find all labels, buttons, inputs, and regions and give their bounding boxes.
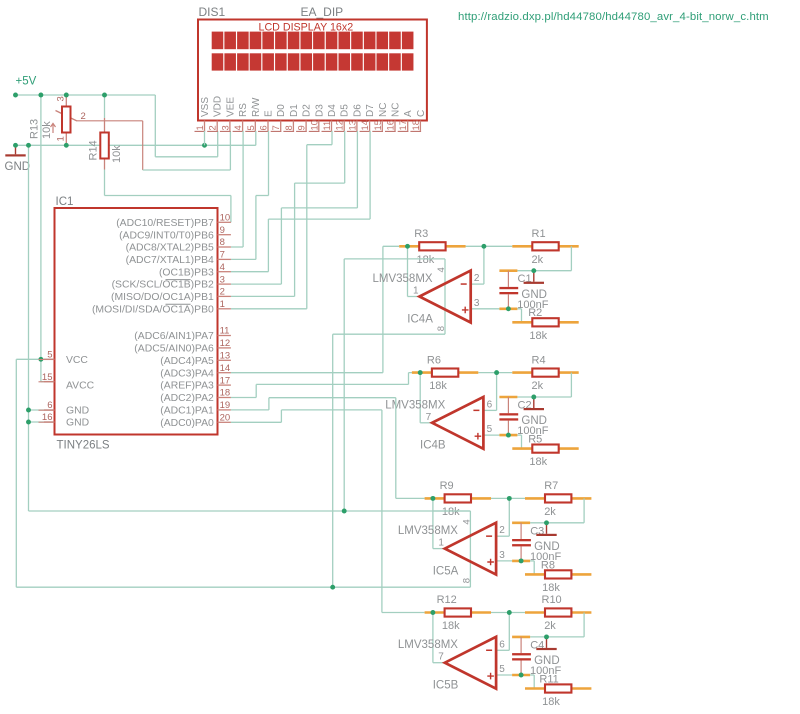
svg-text:18k: 18k: [442, 506, 460, 518]
wire IC4A non-inverting input row: [471, 308, 500, 310]
svg-text:(ADC9/INT0/T0)PB6: (ADC9/INT0/T0)PB6: [119, 230, 214, 241]
wire IC5A inverting input: [496, 535, 509, 537]
svg-text:16: 16: [42, 412, 53, 423]
svg-text:7: 7: [220, 250, 225, 261]
IC1 overline OC1A on PB0: [166, 303, 191, 305]
svg-text:18: 18: [410, 120, 421, 130]
svg-text:IC4A: IC4A: [407, 313, 433, 325]
svg-text:7: 7: [426, 412, 432, 423]
svg-text:11: 11: [220, 326, 230, 337]
svg-text:GND: GND: [66, 417, 89, 428]
svg-text:10: 10: [220, 213, 231, 224]
svg-text:R3: R3: [414, 228, 428, 240]
svg-text:6: 6: [499, 639, 505, 650]
svg-text:GND: GND: [5, 161, 31, 173]
wire LCD pin14 D7 to IC1 pin4: [369, 131, 371, 219]
svg-text:(MISO/DO/OC1A)PB1: (MISO/DO/OC1A)PB1: [111, 292, 214, 303]
wire R14 to IC1 RESET pin10: [105, 195, 231, 197]
wire R4 to C2 top: [570, 373, 572, 397]
wire IC5A output feedback: [432, 498, 434, 548]
svg-text:GND: GND: [521, 415, 547, 427]
svg-text:RS: RS: [238, 103, 249, 117]
svg-text:13: 13: [220, 351, 231, 362]
wire +5V to VCC/AVCC drop: [40, 95, 42, 382]
resistor R6 18k: [412, 371, 432, 374]
svg-text:NC: NC: [378, 103, 389, 117]
svg-text:R5: R5: [528, 434, 542, 446]
wire IC4A inverting input: [471, 283, 484, 285]
wire GND rail: [16, 144, 256, 146]
wire LCD pin4 RS to IC1 pin8: [242, 131, 244, 247]
junction dots +5V rail: [13, 93, 18, 98]
wire IC5A non-inverting input row: [496, 560, 512, 562]
svg-text:14: 14: [359, 120, 370, 130]
svg-text:IC5A: IC5A: [433, 566, 459, 578]
svg-text:NC: NC: [391, 103, 402, 117]
svg-text:LMV358MX: LMV358MX: [398, 639, 458, 651]
svg-text:(ADC3)PA4: (ADC3)PA4: [160, 368, 214, 379]
wire AVCC stub: [41, 381, 55, 383]
svg-text:(ADC6/AIN1)PA7: (ADC6/AIN1)PA7: [134, 331, 214, 342]
svg-text:(SCK/SCL/OC1B)PB2: (SCK/SCL/OC1B)PB2: [112, 280, 214, 291]
svg-text:R4: R4: [532, 354, 546, 366]
svg-text:8: 8: [220, 237, 225, 248]
wire GND pin16 stub: [29, 421, 55, 423]
wire LCD pin11 D4 to IC1 pin1: [331, 131, 333, 145]
svg-text:2: 2: [220, 287, 225, 298]
resistor R12 18k: [425, 611, 445, 614]
svg-text:R13: R13: [29, 119, 41, 139]
svg-text:D5: D5: [340, 104, 351, 117]
resistor R1 2k: [512, 245, 532, 248]
svg-text:(ADC10/RESET)PB7: (ADC10/RESET)PB7: [116, 218, 214, 229]
svg-text:10: 10: [308, 120, 319, 130]
svg-text:1: 1: [194, 125, 205, 130]
wire VCC stub: [41, 358, 55, 360]
svg-text:R8: R8: [541, 559, 555, 571]
svg-text:2k: 2k: [532, 380, 544, 392]
svg-text:18k: 18k: [542, 696, 560, 708]
IC1 overline OC1B on PB2: [166, 279, 191, 281]
svg-text:R/W: R/W: [251, 97, 262, 117]
wire R13 wiper to LCD VEE pin3: [77, 120, 143, 122]
svg-text:DIS1: DIS1: [199, 5, 226, 19]
IC1 left-side pins: [44, 358, 55, 360]
svg-text:(ADC1)PA1: (ADC1)PA1: [160, 406, 214, 417]
svg-text:8: 8: [436, 326, 447, 331]
svg-text:7: 7: [438, 652, 444, 663]
wire GND drop to IC1 GND pins and GND bus: [28, 145, 30, 511]
wire IC5A power pins 4 and 8: [433, 510, 471, 512]
resistor R7 2k: [525, 497, 545, 500]
svg-text:9: 9: [220, 225, 225, 236]
svg-text:+5V: +5V: [16, 76, 37, 88]
svg-text:1: 1: [438, 538, 444, 549]
svg-text:12: 12: [334, 120, 345, 130]
svg-text:R14: R14: [88, 140, 100, 160]
svg-text:12: 12: [220, 338, 231, 349]
svg-text:VCC: VCC: [66, 355, 88, 366]
IC5B input polarity marks and pin numbers: [486, 650, 492, 652]
wire R10 to C4 top: [583, 613, 585, 637]
trimmer R13 10k: [65, 95, 67, 107]
svg-text:18k: 18k: [529, 456, 547, 468]
resistor R3 18k: [399, 245, 419, 248]
resistor R8 18k: [525, 573, 545, 576]
svg-text:8: 8: [283, 125, 294, 130]
wire GND bus horizontal: [29, 510, 471, 512]
wire LCD pin1 VSS to GND rail: [204, 131, 206, 145]
svg-text:(ADC2)PA2: (ADC2)PA2: [160, 393, 214, 404]
svg-text:LMV358MX: LMV358MX: [398, 525, 458, 537]
IC U1 IC1 box: [55, 208, 218, 435]
svg-text:5: 5: [499, 664, 505, 675]
IC5A input polarity marks and pin numbers: [486, 535, 492, 537]
wire +5V bus horizontal: [16, 586, 470, 588]
svg-text:C: C: [416, 110, 427, 117]
svg-text:1: 1: [220, 299, 225, 310]
IC1 right-side pins: [218, 221, 231, 223]
wire IC5A main node: [491, 497, 525, 499]
resistor R14 10k: [104, 95, 106, 118]
svg-text:3: 3: [220, 274, 225, 285]
svg-text:3: 3: [499, 550, 505, 561]
display DIS1 LCD DISPLAY 16x2 box: [198, 20, 427, 121]
svg-text:IC1: IC1: [56, 196, 74, 208]
resistor R11 18k: [525, 687, 545, 690]
svg-text:(ADC7/XTAL1)PB4: (ADC7/XTAL1)PB4: [126, 255, 214, 266]
svg-text:D0: D0: [276, 104, 287, 117]
svg-text:D7: D7: [365, 104, 376, 117]
svg-text:D2: D2: [302, 104, 313, 117]
svg-text:2k: 2k: [544, 620, 556, 632]
junction dot GND bus to IC4A pin4 riser: [343, 259, 345, 511]
wire +5V drop from VCC to +5V bus: [15, 359, 17, 587]
wire IC4B output feedback: [419, 373, 421, 423]
svg-text:VDD: VDD: [213, 96, 224, 117]
svg-text:7: 7: [270, 125, 281, 130]
svg-text:6: 6: [258, 125, 269, 130]
svg-text:18k: 18k: [429, 380, 447, 392]
svg-text:13: 13: [346, 120, 357, 130]
svg-text:GND: GND: [66, 405, 89, 416]
wire IC5B inverting input: [496, 649, 509, 651]
resistor R4 2k: [512, 371, 532, 374]
svg-text:GND: GND: [521, 289, 547, 301]
svg-text:1: 1: [56, 136, 67, 141]
wire LCD pin5 R/W to GND rail: [255, 131, 257, 145]
capacitor C2 100nF: [499, 396, 517, 399]
svg-text:R11: R11: [539, 673, 558, 685]
svg-text:15: 15: [42, 372, 53, 383]
svg-text:(AREF)PA3: (AREF)PA3: [160, 381, 214, 392]
svg-text:20: 20: [220, 413, 231, 424]
wire +5V rail: [16, 94, 156, 96]
svg-text:IC4B: IC4B: [420, 440, 446, 452]
svg-text:R12: R12: [437, 594, 457, 606]
svg-text:4: 4: [436, 267, 447, 272]
svg-text:10k: 10k: [41, 121, 53, 139]
svg-text:16: 16: [385, 120, 396, 130]
svg-text:14: 14: [220, 363, 231, 374]
capacitor C1 100nF: [499, 269, 517, 272]
svg-text:VEE: VEE: [225, 97, 236, 117]
wire LCD pin12 D5 to IC1 pin2: [344, 131, 346, 183]
svg-text:R1: R1: [532, 228, 546, 240]
svg-text:A: A: [403, 110, 414, 117]
svg-text:2: 2: [474, 273, 480, 284]
svg-text:18k: 18k: [542, 582, 560, 594]
op-amp IC5B: [445, 637, 496, 689]
svg-text:R6: R6: [427, 354, 441, 366]
capacitor C3 100nF: [512, 521, 530, 524]
ground symbol at C4: [546, 637, 548, 648]
svg-text:18k: 18k: [529, 330, 547, 342]
svg-text:18: 18: [220, 388, 231, 399]
svg-text:http://radzio.dxp.pl/hd44780/h: http://radzio.dxp.pl/hd44780/hd44780_avr…: [458, 11, 769, 23]
svg-text:1: 1: [413, 286, 419, 297]
wire IC4B main node: [478, 372, 512, 374]
wire VDD path to LCD pin2: [154, 95, 156, 157]
svg-text:11: 11: [321, 121, 332, 131]
svg-text:D4: D4: [327, 104, 338, 117]
svg-text:D3: D3: [314, 104, 325, 117]
svg-text:5: 5: [47, 350, 52, 361]
svg-text:4: 4: [232, 125, 243, 130]
svg-text:D6: D6: [352, 104, 363, 117]
ground symbol at C2: [533, 397, 535, 408]
svg-text:6: 6: [487, 399, 493, 410]
capacitor C4 100nF: [512, 636, 530, 639]
svg-text:3: 3: [56, 96, 67, 101]
svg-text:2k: 2k: [532, 254, 544, 266]
LCD pin lines and numbers 1-18: [204, 121, 206, 131]
svg-text:17: 17: [397, 120, 408, 130]
svg-text:6: 6: [47, 400, 52, 411]
LCD pixel cell rows: [212, 32, 224, 50]
wire IC5B non-inverting input row: [496, 674, 512, 676]
svg-text:LMV358MX: LMV358MX: [373, 273, 433, 285]
svg-text:2k: 2k: [544, 506, 556, 518]
resistor R5 18k: [512, 447, 532, 450]
svg-text:15: 15: [372, 120, 383, 130]
wire IC4A output feedback: [407, 246, 409, 296]
svg-text:(MOSI/DI/SDA/OC1A)PB0: (MOSI/DI/SDA/OC1A)PB0: [92, 304, 214, 315]
svg-text:GND: GND: [534, 541, 560, 553]
svg-text:LMV358MX: LMV358MX: [385, 399, 445, 411]
svg-text:(OC1B)PB3: (OC1B)PB3: [159, 267, 214, 278]
svg-text:(ADC4)PA5: (ADC4)PA5: [160, 356, 214, 367]
svg-text:(ADC5/AIN0)PA6: (ADC5/AIN0)PA6: [134, 344, 214, 355]
svg-text:R2: R2: [528, 307, 542, 319]
resistor R10 2k: [525, 611, 545, 614]
op-amp IC4A: [419, 271, 470, 323]
wire IC4B inverting input: [483, 409, 496, 411]
svg-text:18k: 18k: [442, 620, 460, 632]
svg-text:AVCC: AVCC: [66, 381, 95, 392]
svg-text:4: 4: [220, 262, 225, 273]
svg-text:2: 2: [499, 525, 505, 536]
wire input feed to IC4A: [231, 372, 383, 374]
wire IC4A power pins 4 and 8: [408, 258, 446, 260]
svg-text:D1: D1: [289, 104, 300, 117]
svg-text:TINY26LS: TINY26LS: [57, 440, 110, 452]
ground symbol GND: [15, 145, 17, 154]
svg-text:EA_DIP: EA_DIP: [301, 5, 344, 19]
wire R1 to C1 top: [570, 246, 572, 270]
junction dots GND rail: [13, 143, 18, 148]
IC4B input polarity marks and pin numbers: [473, 410, 479, 412]
svg-text:3: 3: [474, 298, 480, 309]
ground symbol at C1: [533, 271, 535, 282]
wire input feed to IC5A: [231, 409, 269, 411]
svg-text:19: 19: [220, 400, 231, 411]
svg-text:4: 4: [461, 519, 472, 524]
svg-text:9: 9: [296, 125, 307, 130]
wire IC4B non-inverting input row: [483, 434, 499, 436]
junction dots IC1 left pins: [38, 357, 43, 362]
wire LCD pin6 E to IC1 pin7: [268, 131, 270, 196]
svg-text:18k: 18k: [417, 254, 435, 266]
svg-text:10k: 10k: [111, 145, 123, 163]
resistor R2 18k: [512, 321, 532, 324]
wire IC5B main node: [491, 612, 525, 614]
IC4A input polarity marks and pin numbers: [461, 283, 467, 285]
svg-text:2: 2: [207, 125, 218, 130]
svg-text:17: 17: [220, 375, 231, 386]
wire GND pin6 stub: [29, 409, 55, 411]
op-amp IC4B: [432, 397, 483, 449]
svg-text:3: 3: [219, 125, 230, 130]
svg-text:(ADC8/XTAL2)PB5: (ADC8/XTAL2)PB5: [126, 243, 214, 254]
svg-text:VSS: VSS: [200, 97, 211, 117]
op-amp IC5A: [445, 523, 496, 575]
svg-text:8: 8: [461, 578, 472, 583]
svg-text:GND: GND: [534, 655, 560, 667]
svg-text:5: 5: [487, 424, 493, 435]
svg-text:IC5B: IC5B: [433, 680, 459, 692]
wire IC4A main node: [466, 245, 513, 247]
wire R7 to C3 top: [583, 498, 585, 522]
wire input feed to IC5B: [231, 421, 282, 423]
wire input feed to IC4B: [231, 397, 256, 399]
svg-text:E: E: [264, 110, 275, 117]
ground symbol at C3: [546, 523, 548, 534]
svg-text:R10: R10: [542, 594, 562, 606]
svg-text:(ADC0)PA0: (ADC0)PA0: [160, 418, 214, 429]
svg-text:R7: R7: [544, 480, 558, 492]
resistor R9 18k: [425, 497, 445, 500]
svg-text:R9: R9: [440, 480, 454, 492]
wire LCD pin13 D6 to IC1 pin3: [356, 131, 358, 208]
wire IC5B output feedback: [432, 613, 434, 663]
svg-text:5: 5: [245, 125, 256, 130]
wire IC4A pin8 to +5V bus: [333, 333, 445, 335]
